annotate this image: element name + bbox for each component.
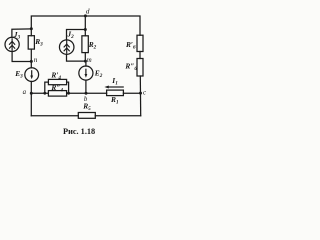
node m [84,60,87,63]
emf E3 arrow (down) [30,70,33,79]
wire R4 group to node b to R1 [67,92,107,94]
svg-text:Рис. 1.18: Рис. 1.18 [63,127,95,136]
wire E3 bottom to node a [30,81,32,93]
wire right branch between R'6 and R"6 [139,52,141,59]
junction dot R4 group right bar [67,92,70,95]
junction dot left riser / J3 horizontal [30,27,33,30]
wire R"6 bottom through node c to bottom rail [139,76,141,116]
wire J3 bottom to node n [12,52,31,62]
emf source E2 circle [79,66,93,80]
junction dot R4 group left bar [43,92,46,95]
wire bottom rail right of R5 [95,115,140,117]
current source J2 double-arrow symbol [64,41,70,54]
wire E2 bottom to node b [85,80,87,93]
current I1 arrow (pointing left) [104,86,123,89]
wire R3 bottom to node n [30,49,32,61]
emf E2 arrow (down) [85,69,88,78]
node c [139,92,142,95]
wire bottom rail left of R5 [31,115,78,117]
current source J3 circle [5,37,19,51]
wire middle group top horizontal [67,30,86,40]
resistor R'6 [137,35,143,51]
svg-text:n: n [34,56,38,64]
resistor R"6 [137,59,143,77]
resistor R"4 [48,91,66,97]
current source J3 double-arrow symbol [9,38,15,51]
svg-text:b: b [84,96,88,103]
wire top main d-rail [31,16,140,36]
emf source E3 circle [25,68,39,82]
wire R4 parallel loop right bar [67,82,69,93]
wire R2 bottom to node m [84,53,86,62]
current source J2 circle [59,40,74,55]
node n [30,60,33,63]
wire E3 top stub [30,62,32,68]
resistor R'4 [48,79,66,84]
wire R1 to node c [123,92,140,94]
resistor R2 [82,36,88,53]
svg-text:c: c [143,89,146,96]
wire middle riser d to R2 [84,16,86,36]
svg-text:a: a [23,89,27,96]
wire left group top horizontal [12,29,31,38]
node d [84,14,87,17]
wire R4 parallel loop left bar [45,82,49,93]
svg-text:d: d [86,6,90,15]
svg-text:m: m [87,57,92,64]
resistor R5 [78,113,95,119]
wire node a drop to bottom rail [30,93,32,116]
resistor R1 [107,90,124,96]
wire node a to R4 group [31,92,48,94]
resistor R3 [28,36,34,49]
wire E2 top stub [85,61,87,66]
junction dot middle riser / J2 horizontal [84,28,87,31]
wire J2 bottom to node m [67,54,86,61]
node a [30,92,33,95]
node b [85,92,88,95]
